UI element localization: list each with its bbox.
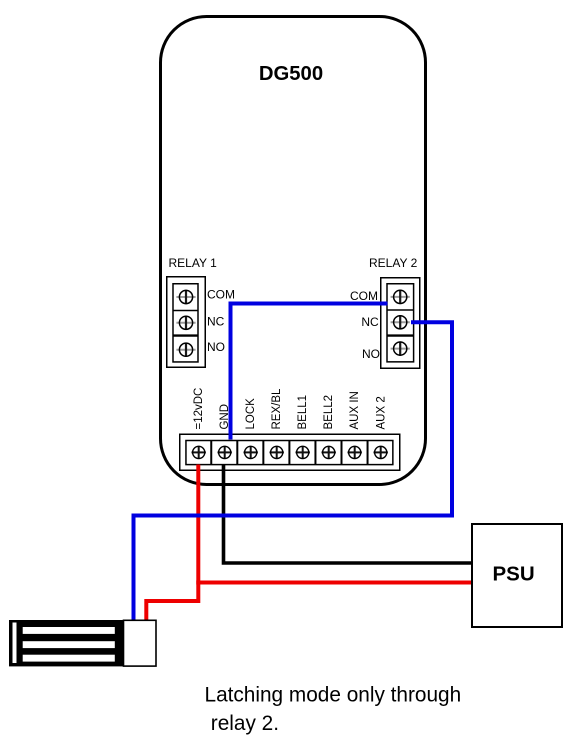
svg-text:DG500: DG500 bbox=[259, 63, 323, 85]
svg-text:RELAY 1: RELAY 1 bbox=[169, 256, 218, 270]
svg-text:NO: NO bbox=[362, 347, 380, 361]
svg-text:COM: COM bbox=[350, 289, 378, 303]
svg-text:BELL2: BELL2 bbox=[323, 395, 335, 430]
svg-text:COM: COM bbox=[207, 288, 235, 302]
svg-text:PSU: PSU bbox=[493, 563, 535, 586]
svg-text:AUX IN: AUX IN bbox=[349, 391, 361, 429]
svg-text:AUX 2: AUX 2 bbox=[375, 396, 387, 429]
svg-text:relay 2.: relay 2. bbox=[211, 712, 279, 735]
svg-text:=12vDC: =12vDC bbox=[193, 388, 205, 430]
svg-text:LOCK: LOCK bbox=[245, 398, 257, 430]
svg-text:REX/BL: REX/BL bbox=[271, 388, 283, 430]
svg-text:NC: NC bbox=[207, 315, 225, 329]
svg-text:BELL1: BELL1 bbox=[297, 395, 309, 430]
svg-text:Latching mode only through: Latching mode only through bbox=[205, 684, 462, 707]
svg-text:NO: NO bbox=[207, 340, 225, 354]
svg-text:NC: NC bbox=[361, 315, 379, 329]
svg-text:RELAY 2: RELAY 2 bbox=[369, 256, 418, 270]
